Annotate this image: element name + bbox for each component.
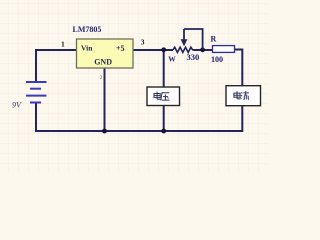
wire: battery top to top rail to U1 pin1: [36, 50, 77, 82]
svg-text:9V: 9V: [12, 101, 22, 110]
potentiometer wiper arrow: [183, 29, 185, 40]
svg-text:+5: +5: [116, 44, 125, 53]
wire: voltmeter drop from node 3 rail: [163, 50, 165, 87]
svg-text:Vin: Vin: [81, 43, 93, 52]
junction node on ground rail at voltmeter: [161, 129, 166, 134]
wire: R1 right to current meter top: [235, 50, 243, 87]
ammeter label 电流 (drawn glyphs): [234, 91, 249, 99]
svg-text:100: 100: [211, 55, 223, 64]
svg-text:1: 1: [61, 39, 65, 48]
resistor R body: [213, 46, 235, 53]
svg-text:W: W: [168, 55, 176, 64]
junction node on top rail at voltmeter tap: [161, 47, 166, 52]
wire: voltmeter bottom to ground rail: [163, 106, 165, 132]
wire: U1 GND pin drop: [104, 68, 106, 131]
junction node at potentiometer wiper return: [200, 47, 205, 52]
svg-text:GND: GND: [94, 57, 112, 66]
wire: bottom ground rail: [36, 103, 242, 131]
battery BT1 9V plates: [26, 82, 47, 103]
ammeter box: [226, 86, 261, 106]
svg-text:R: R: [211, 35, 217, 44]
regulator U1 body: [77, 39, 134, 68]
junction node on ground rail at GND drop: [102, 129, 107, 134]
potentiometer wiper return bracket: [184, 29, 203, 50]
svg-text:LM7805: LM7805: [73, 25, 102, 34]
svg-text:2: 2: [100, 75, 103, 81]
potentiometer W zigzag body: [173, 47, 194, 52]
wire: potentiometer to R1: [194, 49, 213, 51]
svg-text:330: 330: [187, 52, 200, 62]
svg-text:3: 3: [141, 38, 145, 47]
voltmeter label 电压 (drawn glyphs): [154, 92, 170, 101]
voltmeter box: [147, 87, 180, 106]
wire: U1 pin3 rail to potentiometer: [133, 49, 173, 51]
